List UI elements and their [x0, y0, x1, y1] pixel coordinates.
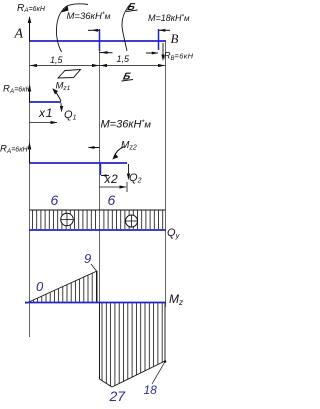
svg-text:A: A: [14, 27, 24, 42]
svg-text:27: 27: [109, 388, 127, 404]
svg-text:1,5: 1,5: [50, 55, 64, 65]
svg-text:x2: x2: [104, 172, 119, 186]
svg-text:6: 6: [108, 192, 116, 208]
svg-text:1,5: 1,5: [117, 54, 131, 64]
svg-text:RB=6кН: RB=6кН: [164, 51, 194, 62]
svg-text:x1: x1: [38, 106, 53, 120]
svg-text:M=36кН*м: M=36кН*м: [101, 118, 152, 131]
svg-text:M=18кН*м: M=18кН*м: [148, 13, 190, 23]
svg-text:0: 0: [36, 279, 44, 294]
svg-text:M=36кН*м: M=36кН*м: [67, 11, 111, 22]
svg-text:18: 18: [144, 383, 158, 397]
svg-text:6: 6: [51, 192, 59, 208]
svg-text:B: B: [171, 31, 179, 46]
svg-text:9: 9: [84, 251, 91, 266]
